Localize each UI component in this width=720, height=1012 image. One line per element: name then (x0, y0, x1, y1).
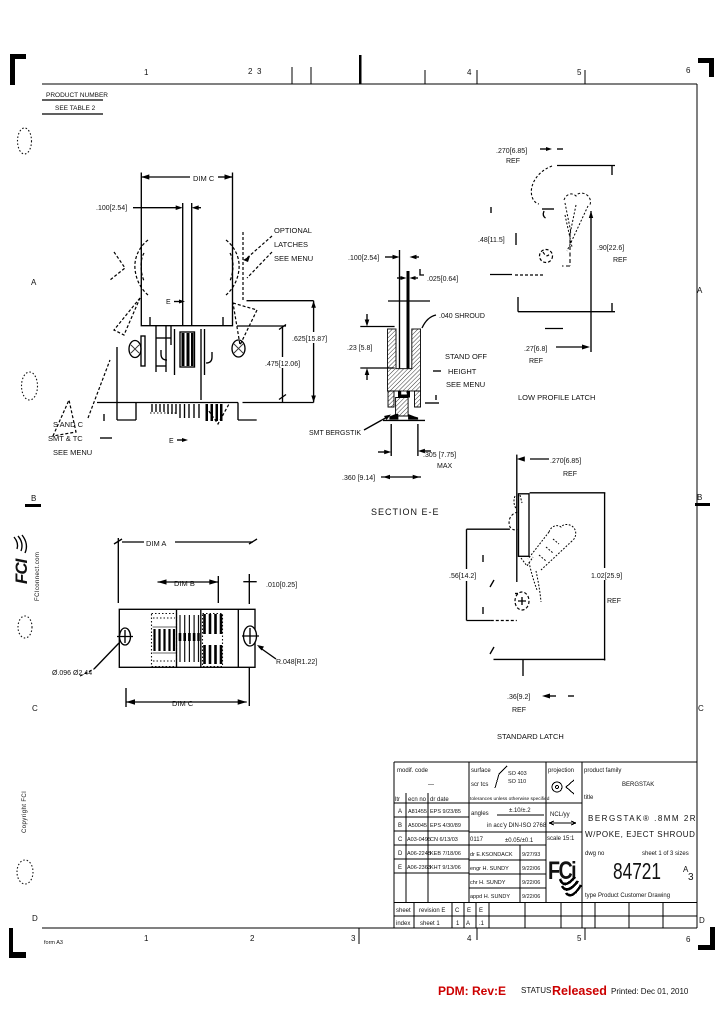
svg-text:84721: 84721 (613, 858, 661, 884)
svg-text:DIM B: DIM B (174, 579, 195, 588)
svg-text:.48[11.5]: .48[11.5] (478, 237, 505, 244)
svg-text:DIM C: DIM C (193, 174, 215, 183)
svg-text:SO 110: SO 110 (508, 779, 526, 785)
svg-text:ecn no: ecn no (408, 797, 427, 803)
svg-text:6: 6 (686, 935, 691, 944)
svg-text:LOW PROFILE LATCH: LOW PROFILE LATCH (518, 393, 595, 402)
svg-text:index: index (396, 921, 410, 927)
svg-text:PRODUCT NUMBER: PRODUCT NUMBER (46, 92, 108, 99)
svg-text:SO 403: SO 403 (508, 771, 527, 777)
svg-text:0117: 0117 (470, 837, 484, 843)
svg-text:.100[2.54]: .100[2.54] (96, 205, 127, 212)
svg-text:REF: REF (607, 598, 621, 605)
svg-text:REF: REF (529, 358, 543, 365)
svg-text:LATCHES: LATCHES (274, 240, 308, 249)
svg-text:dwg no: dwg no (585, 851, 605, 857)
svg-text:appd H. SUNDY: appd H. SUNDY (470, 894, 510, 900)
svg-text:9/27/93: 9/27/93 (522, 852, 540, 858)
svg-text:R.048[R1.22]: R.048[R1.22] (276, 659, 317, 666)
svg-text:.625[15.87]: .625[15.87] (292, 336, 327, 343)
svg-text:REF: REF (613, 257, 627, 264)
svg-text:modif. code: modif. code (397, 768, 429, 774)
svg-text:REF: REF (563, 471, 577, 478)
svg-text:A: A (31, 278, 37, 287)
svg-text:.56[14.2]: .56[14.2] (449, 573, 476, 580)
svg-text:tolerances unless otherwise sp: tolerances unless otherwise specified (470, 796, 550, 802)
svg-text:D: D (398, 851, 403, 857)
svg-text:6: 6 (686, 66, 691, 75)
svg-text:3: 3 (351, 934, 356, 943)
svg-text:EPS 4/30/89: EPS 4/30/89 (430, 823, 461, 829)
svg-text:W/POKE, EJECT SHROUD: W/POKE, EJECT SHROUD (585, 830, 696, 839)
svg-text:3: 3 (688, 872, 694, 883)
svg-text:1: 1 (144, 934, 149, 943)
svg-text:angles: angles (471, 811, 489, 817)
svg-text:9/22/06: 9/22/06 (522, 894, 540, 900)
svg-text:SEE MENU: SEE MENU (274, 254, 313, 263)
svg-text:dr date: dr date (430, 797, 449, 803)
svg-text:2: 2 (248, 67, 253, 76)
svg-text:.040 SHROUD: .040 SHROUD (439, 313, 485, 320)
svg-text:.010[0.25]: .010[0.25] (266, 582, 297, 589)
svg-text:KHT 9/13/06: KHT 9/13/06 (430, 865, 461, 871)
svg-text:sheet: sheet (396, 908, 411, 914)
svg-text:9/22/06: 9/22/06 (522, 866, 540, 872)
svg-text:.025[0.64]: .025[0.64] (427, 276, 458, 283)
svg-text:.36[9.2]: .36[9.2] (507, 694, 530, 701)
svg-text:4: 4 (467, 934, 472, 943)
svg-text:FCIconnect.com: FCIconnect.com (35, 552, 41, 601)
svg-text:EPS 9/23/85: EPS 9/23/85 (430, 809, 461, 815)
svg-text:type Product Customer Drawin: type Product Customer Drawing (585, 893, 670, 899)
svg-text:A06-2363: A06-2363 (407, 865, 431, 871)
svg-text:A: A (398, 809, 402, 815)
svg-text:B: B (697, 493, 702, 502)
svg-text:A50045: A50045 (408, 823, 427, 829)
svg-text:STAND OFF: STAND OFF (445, 352, 487, 361)
svg-text:HEIGHT: HEIGHT (448, 367, 477, 376)
svg-text:2: 2 (250, 934, 255, 943)
svg-text:1: 1 (144, 68, 149, 77)
svg-text:.305 [7.75]: .305 [7.75] (423, 452, 456, 459)
svg-text:.270[6.85]: .270[6.85] (550, 458, 581, 465)
svg-text:engr H. SUNDY: engr H. SUNDY (470, 866, 509, 872)
svg-text:A: A (697, 286, 703, 295)
svg-text:ltr: ltr (395, 797, 400, 803)
svg-text:CN 6/13/03: CN 6/13/03 (430, 837, 458, 843)
svg-text:sheet 1 of 3 sizes: sheet 1 of 3 sizes (642, 851, 689, 857)
svg-text:S AND C: S AND C (53, 420, 84, 429)
svg-text:SEE MENU: SEE MENU (53, 448, 92, 457)
svg-text:surface: surface (471, 768, 491, 774)
svg-text:DIM C: DIM C (172, 699, 194, 708)
svg-text:B: B (31, 494, 36, 503)
svg-text:5: 5 (577, 68, 582, 77)
svg-text:A06-2248: A06-2248 (407, 851, 431, 857)
svg-text:BERGSTAK: BERGSTAK (622, 782, 654, 788)
svg-text:A: A (466, 921, 470, 927)
svg-text:Printed: Dec 01, 2010: Printed: Dec 01, 2010 (611, 987, 689, 996)
svg-text:Released: Released (552, 984, 607, 998)
svg-text:BERGSTAK® .8MM 2R: BERGSTAK® .8MM 2R (588, 814, 697, 823)
svg-text:KEB 7/18/06: KEB 7/18/06 (430, 851, 461, 857)
svg-text:SEE TABLE 2: SEE TABLE 2 (55, 105, 96, 112)
svg-text:C: C (32, 704, 38, 713)
svg-text:REF: REF (506, 158, 520, 165)
svg-text:E: E (169, 438, 174, 445)
svg-text:C: C (455, 908, 460, 914)
svg-text:FCI: FCI (12, 557, 31, 584)
svg-text:.27[6.8]: .27[6.8] (524, 346, 547, 353)
svg-text:.90[22.6]: .90[22.6] (597, 245, 624, 252)
svg-text:.1: .1 (479, 921, 485, 927)
svg-text:5: 5 (577, 934, 582, 943)
svg-text:PDM: Rev:E: PDM: Rev:E (438, 984, 506, 998)
svg-text:A03-0495: A03-0495 (407, 837, 431, 843)
svg-text:C: C (698, 704, 704, 713)
svg-text:scale 15:1: scale 15:1 (547, 836, 575, 842)
svg-text:chr H. SUNDY: chr H. SUNDY (470, 880, 506, 886)
svg-text:DIM A: DIM A (146, 539, 166, 548)
svg-text:.270[6.85]: .270[6.85] (496, 148, 527, 155)
svg-text:SECTION E-E: SECTION E-E (371, 507, 440, 517)
svg-text:C: C (398, 837, 403, 843)
svg-text:1.02[25.9]: 1.02[25.9] (591, 573, 622, 580)
svg-text:form A3: form A3 (44, 940, 63, 946)
svg-text:revision E: revision E (419, 908, 445, 914)
svg-text:Copyright FCI: Copyright FCI (22, 791, 28, 833)
svg-text:9/22/06: 9/22/06 (522, 880, 540, 886)
svg-text:SMT & TC: SMT & TC (48, 434, 83, 443)
svg-text:STATUS: STATUS (521, 986, 551, 995)
svg-text:E: E (166, 299, 171, 306)
svg-text:projection: projection (548, 768, 574, 774)
svg-text:B: B (398, 823, 402, 829)
svg-text:4: 4 (467, 68, 472, 77)
svg-text:E: E (479, 908, 483, 914)
svg-text:.23 [5.8]: .23 [5.8] (347, 345, 372, 352)
svg-text:NCL/yy: NCL/yy (550, 812, 570, 818)
svg-text:product family: product family (584, 768, 621, 774)
svg-text:sheet 1: sheet 1 (420, 921, 440, 927)
svg-text:±0.05/±0.1: ±0.05/±0.1 (505, 838, 534, 844)
svg-text:OPTIONAL: OPTIONAL (274, 226, 312, 235)
svg-text:scr tcs: scr tcs (471, 782, 488, 788)
svg-text:REF: REF (512, 707, 526, 714)
svg-text:dr E.KSONDACK: dr E.KSONDACK (470, 852, 513, 858)
svg-text:D: D (699, 916, 705, 925)
svg-text:3: 3 (257, 67, 262, 76)
svg-text:.475[12.06]: .475[12.06] (265, 361, 300, 368)
svg-text:SMT BERGSTIK: SMT BERGSTIK (309, 430, 361, 437)
svg-text:D: D (32, 914, 38, 923)
svg-text:E: E (467, 908, 471, 914)
svg-text:STANDARD LATCH: STANDARD LATCH (497, 732, 564, 741)
svg-text:—: — (428, 782, 434, 788)
svg-text:title: title (584, 795, 594, 801)
svg-text:in acc'y DIN-ISO 2768: in acc'y DIN-ISO 2768 (487, 823, 547, 829)
svg-text:±.10/±.2: ±.10/±.2 (509, 808, 531, 814)
svg-text:E: E (398, 865, 402, 871)
svg-text:SEE MENU: SEE MENU (446, 380, 485, 389)
svg-text:.100[2.54]: .100[2.54] (348, 255, 379, 262)
svg-text:.360 [9.14]: .360 [9.14] (342, 475, 375, 482)
svg-text:MAX: MAX (437, 463, 453, 470)
svg-text:A81455: A81455 (408, 809, 427, 815)
